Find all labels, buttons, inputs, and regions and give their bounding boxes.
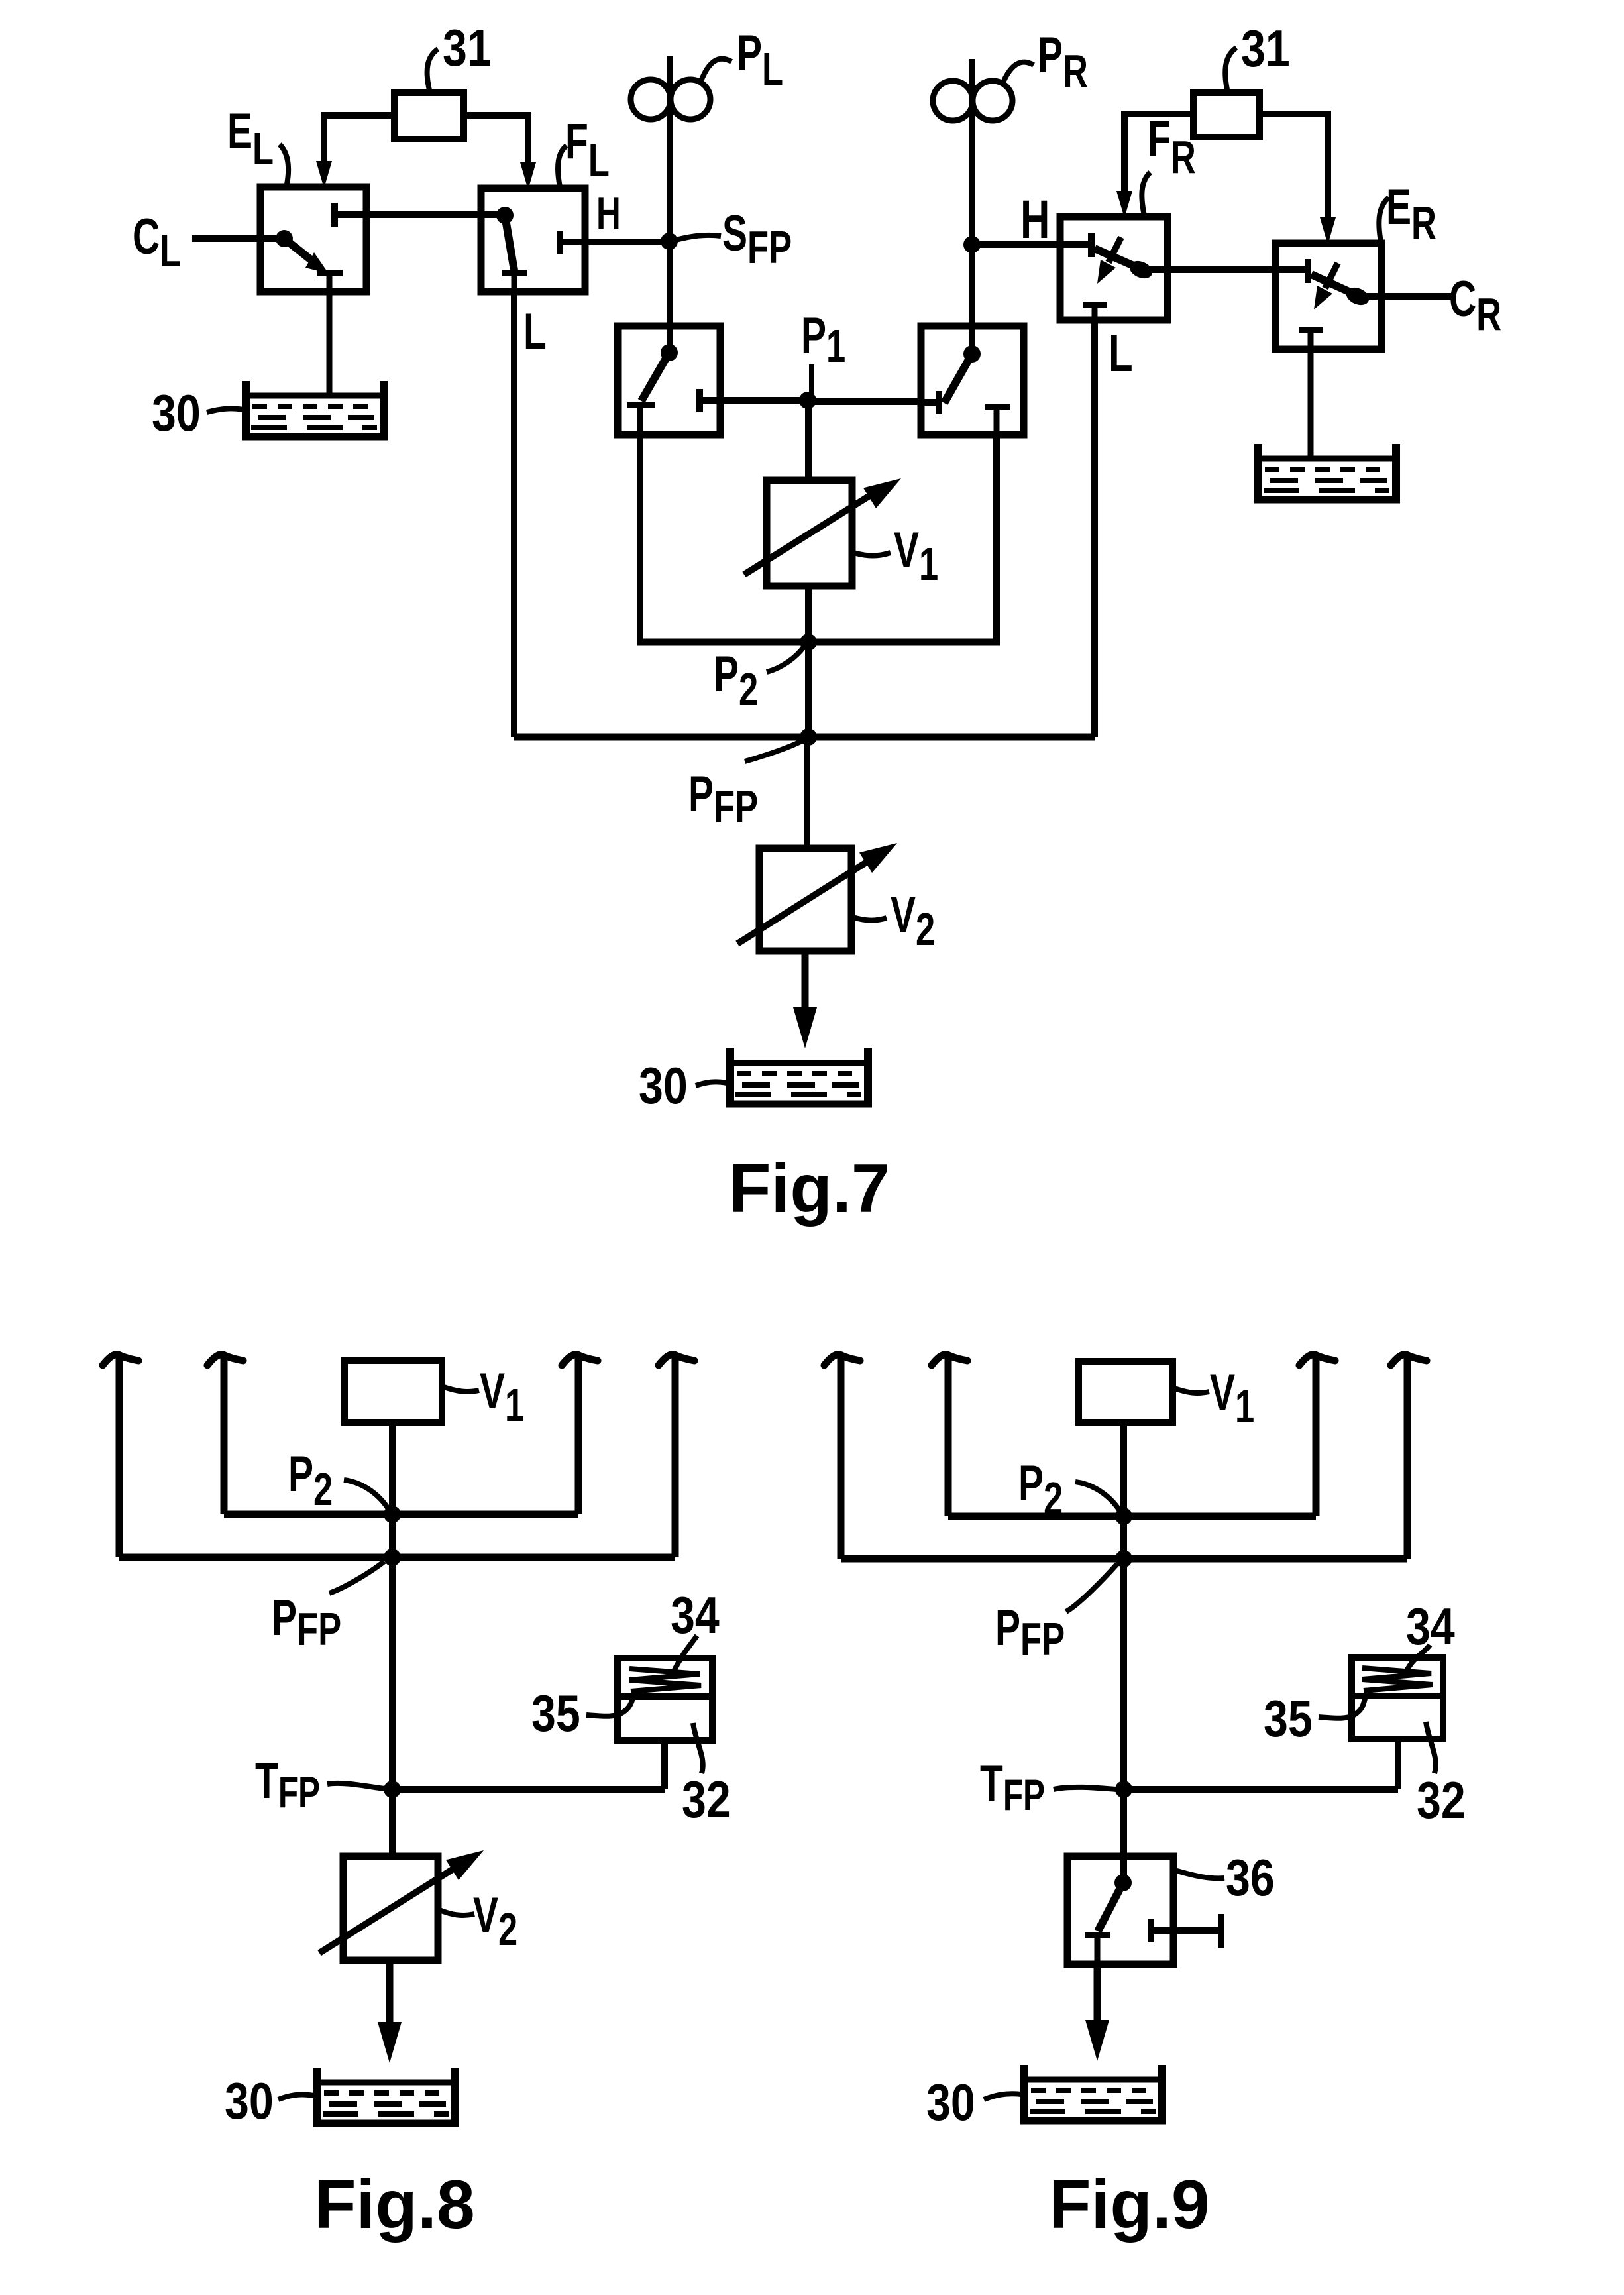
svg-text:31: 31 xyxy=(1241,20,1290,78)
valve V1 xyxy=(744,469,908,586)
wire V1 to P2 (fig9) xyxy=(1120,1422,1127,1516)
wire P2 to PFP (fig9) xyxy=(1120,1516,1127,1559)
wire PFP bus (fig8) xyxy=(119,1554,675,1561)
return arrow 2 (fig9) xyxy=(932,1355,967,1516)
svg-text:Fig.7: Fig.7 xyxy=(729,1150,890,1227)
leader 30 fig8 xyxy=(278,2094,314,2099)
leader PFP xyxy=(745,740,804,761)
tank 30 (fig9) xyxy=(1020,2065,1166,2122)
svg-text:30: 30 xyxy=(639,1057,688,1115)
relief valve 32 (fig9) xyxy=(1352,1657,1443,1739)
leader to FL xyxy=(558,146,567,187)
wire P1 to right-middle valve xyxy=(808,398,921,405)
leader P2 xyxy=(767,646,804,672)
svg-text:ER: ER xyxy=(1386,179,1436,249)
arrow into FR top xyxy=(1116,191,1132,218)
controller box 31 (left) xyxy=(394,93,464,139)
leader V1 fig8 xyxy=(442,1386,479,1392)
wire valve 36 to tank arrow (fig9) xyxy=(1094,1964,1101,2022)
svg-text:36: 36 xyxy=(1226,1849,1275,1907)
svg-text:V2: V2 xyxy=(891,887,935,956)
wire PR line xyxy=(969,59,975,354)
svg-text:L: L xyxy=(1109,323,1133,382)
svg-text:35: 35 xyxy=(531,1685,580,1742)
svg-text:PFP: PFP xyxy=(995,1600,1065,1665)
leader 30 fig7 xyxy=(696,1082,727,1086)
wire P2 to PFP xyxy=(805,642,812,737)
node TFP (fig9) xyxy=(1115,1781,1132,1798)
wire left-middle valve to P1 xyxy=(720,397,808,404)
leader 35 fig9 xyxy=(1319,1696,1366,1718)
valve right-middle (below PR) xyxy=(921,326,1024,435)
valve ER xyxy=(1275,243,1381,349)
wire ER to tank30 right xyxy=(1308,349,1314,457)
wire L from FR down xyxy=(1091,320,1098,737)
tank 30 (fig8) xyxy=(313,2068,459,2125)
leader PFP fig8 xyxy=(329,1561,384,1593)
leader to EL xyxy=(280,144,288,184)
arrow into FL top xyxy=(520,162,536,190)
valve FL xyxy=(481,188,585,292)
arrow into ER top xyxy=(1320,217,1336,245)
svg-text:V2: V2 xyxy=(473,1887,517,1956)
tank 30 (fig7 bottom) xyxy=(726,1048,872,1105)
wire FR to ER xyxy=(1141,266,1308,273)
leader to 31 left xyxy=(427,49,438,93)
svg-text:P2: P2 xyxy=(714,646,758,716)
wire PFP bus (fig9) xyxy=(841,1555,1407,1563)
return arrow 3 (fig8) xyxy=(562,1355,598,1514)
valve EL xyxy=(260,187,366,292)
leader 30 to tank left xyxy=(207,408,243,412)
leader 36 fig9 xyxy=(1175,1870,1224,1878)
leader TFP fig8 xyxy=(327,1783,384,1789)
svg-text:PL: PL xyxy=(737,25,783,95)
node PFP (fig9) xyxy=(1115,1550,1132,1567)
valve left-middle (below SFP) xyxy=(618,326,720,435)
wire 31-right to ER xyxy=(1260,114,1328,220)
node SFP xyxy=(661,233,678,250)
valve FR xyxy=(1060,217,1167,320)
wire V1 to P2 xyxy=(805,586,812,642)
wire V1 to P2 (fig8) xyxy=(389,1422,396,1514)
svg-text:Fig.9: Fig.9 xyxy=(1049,2166,1210,2243)
wire FL to SFP node xyxy=(585,239,671,245)
leader to FR xyxy=(1142,172,1150,215)
leader V2 xyxy=(853,917,887,921)
leader P2 fig9 xyxy=(1075,1482,1121,1513)
pump PR xyxy=(933,81,1012,121)
arrow into tank 30 (fig7) xyxy=(793,1007,817,1048)
wire relief valve to TFP line (fig8) xyxy=(661,1740,668,1789)
node P1 xyxy=(799,392,816,409)
node PFP xyxy=(800,728,817,746)
wire P2 bus xyxy=(637,639,1000,646)
wire EL to FL xyxy=(335,211,505,218)
wire left-middle to P2 line xyxy=(637,435,643,642)
wire CL to EL xyxy=(192,235,284,242)
leader V1 fig9 xyxy=(1173,1388,1209,1393)
wire TFP line (fig9) xyxy=(1124,1786,1398,1793)
svg-text:30: 30 xyxy=(926,2074,975,2131)
svg-text:CR: CR xyxy=(1449,271,1501,341)
svg-text:TFP: TFP xyxy=(980,1756,1045,1820)
node TFP (fig8) xyxy=(384,1781,401,1798)
return arrow 2 (fig8) xyxy=(207,1355,243,1514)
node P2 (fig8) xyxy=(384,1506,401,1523)
valve V2 (fig8) xyxy=(319,1840,490,1960)
relief valve 32 (fig8) xyxy=(618,1658,712,1740)
leader 32 fig9 xyxy=(1426,1722,1436,1773)
svg-text:30: 30 xyxy=(152,384,201,442)
leader V2 fig8 xyxy=(438,1909,474,1915)
leader 34 fig9 xyxy=(1407,1645,1430,1671)
leader PFP fig9 xyxy=(1066,1564,1117,1612)
leader to 31 right xyxy=(1225,48,1236,93)
svg-text:31: 31 xyxy=(443,19,492,77)
wire P1 to V1 xyxy=(805,400,812,480)
node PFP (fig8) xyxy=(384,1549,401,1566)
wire PFP bus xyxy=(514,734,1095,741)
valve V1 (fig9) xyxy=(1079,1361,1173,1422)
leader to PR xyxy=(1003,62,1034,82)
wire relief valve to TFP line (fig9) xyxy=(1395,1739,1401,1789)
return arrow 1 (fig8) xyxy=(103,1355,138,1557)
wire EL to tank30 left xyxy=(327,292,333,394)
svg-text:L: L xyxy=(523,304,547,360)
svg-text:FL: FL xyxy=(565,113,610,187)
return arrow 4 (fig9) xyxy=(1391,1355,1427,1559)
svg-text:PR: PR xyxy=(1038,27,1088,97)
pump PL xyxy=(631,80,710,119)
svg-text:H: H xyxy=(1020,189,1050,250)
leader P1 xyxy=(809,364,814,395)
svg-text:Fig.8: Fig.8 xyxy=(314,2166,475,2243)
svg-text:CL: CL xyxy=(133,209,181,277)
svg-text:V1: V1 xyxy=(480,1363,524,1431)
node P2 (fig9) xyxy=(1115,1508,1132,1525)
wire TFP to valve 36 (fig9) xyxy=(1120,1789,1127,1883)
svg-text:V1: V1 xyxy=(1210,1365,1254,1433)
svg-text:32: 32 xyxy=(682,1771,731,1828)
arrow into tank 30 (fig8) xyxy=(378,2022,402,2063)
wire TFP line (fig8) xyxy=(392,1786,665,1793)
wire L from FL down xyxy=(511,292,517,737)
return arrow 3 (fig9) xyxy=(1299,1355,1335,1516)
wire P2 bus (fig8) xyxy=(224,1511,578,1518)
svg-text:P2: P2 xyxy=(288,1446,333,1516)
tank 30 (right) xyxy=(1254,444,1400,501)
svg-text:P1: P1 xyxy=(801,308,845,372)
leader 34 fig8 xyxy=(674,1636,697,1671)
wire 31-left to FL xyxy=(464,115,528,166)
return arrow 4 (fig8) xyxy=(659,1355,694,1557)
leader 32 fig8 xyxy=(693,1723,703,1773)
svg-text:30: 30 xyxy=(225,2072,274,2130)
leader to PL xyxy=(701,59,731,81)
tank 30 (left) xyxy=(242,381,388,438)
svg-text:V1: V1 xyxy=(894,522,938,590)
arrow into EL top xyxy=(316,161,332,188)
valve V2 (fig7) xyxy=(737,833,904,951)
svg-text:H: H xyxy=(596,188,621,239)
wire PFP to TFP (fig9) xyxy=(1120,1559,1127,1789)
wire 31-right to FR xyxy=(1124,114,1193,194)
svg-text:SFP: SFP xyxy=(722,205,792,274)
svg-text:32: 32 xyxy=(1417,1771,1466,1829)
leader 30 fig9 xyxy=(984,2094,1021,2099)
svg-text:FR: FR xyxy=(1148,111,1196,184)
svg-text:PFP: PFP xyxy=(688,766,758,833)
svg-text:TFP: TFP xyxy=(255,1753,320,1817)
leader V1 xyxy=(853,553,891,556)
arrow into tank 30 (fig9) xyxy=(1085,2020,1109,2061)
valve 36 (fig9) xyxy=(1067,1856,1221,1964)
wire P2 to PFP (fig8) xyxy=(389,1514,396,1557)
leader SFP xyxy=(676,235,721,240)
wire H node to FR xyxy=(972,241,1091,248)
wire TFP to V2 (fig8) xyxy=(389,1789,396,1856)
wire PL line xyxy=(667,56,673,353)
wire PFP to V2 xyxy=(804,737,810,848)
wire V2 to tank arrow (fig8) xyxy=(386,1960,394,2022)
wire PFP to TFP (fig8) xyxy=(389,1557,396,1789)
wire ER to CR xyxy=(1358,293,1451,300)
leader 35 fig8 xyxy=(586,1697,633,1716)
wire 31-left to EL xyxy=(324,115,394,164)
wire P2 bus (fig9) xyxy=(948,1513,1316,1520)
leader to ER xyxy=(1379,197,1389,242)
leader TFP fig9 xyxy=(1054,1787,1116,1789)
wire right-middle to P2 line xyxy=(993,435,1000,642)
svg-text:PFP: PFP xyxy=(272,1590,341,1655)
svg-text:35: 35 xyxy=(1264,1690,1313,1748)
node H (right) xyxy=(963,236,981,253)
leader P2 fig8 xyxy=(344,1480,390,1511)
wire V2 to tank arrow xyxy=(802,951,809,1009)
return arrow 1 (fig9) xyxy=(824,1355,860,1559)
controller box 31 (right) xyxy=(1193,93,1260,137)
node P2 xyxy=(800,634,817,651)
valve V1 (fig8) xyxy=(345,1361,442,1422)
svg-text:EL: EL xyxy=(227,103,274,175)
